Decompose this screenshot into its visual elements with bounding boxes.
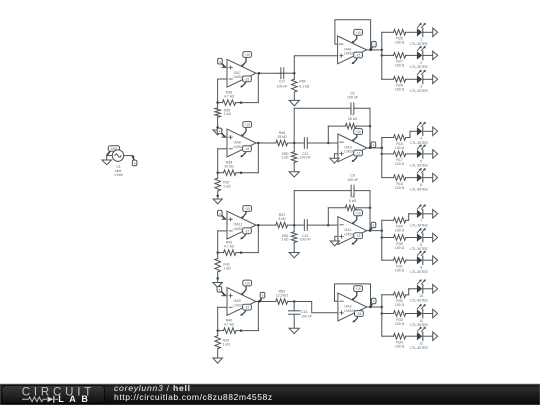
wire [423,130,433,132]
resistor R42 [218,241,259,256]
power flag +15 OA7 [241,52,252,67]
node a flag row1 [218,58,226,67]
wire [408,214,410,221]
svg-text:25 kΩ: 25 kΩ [348,117,358,121]
resistor R29 [382,218,409,233]
wire [218,78,227,80]
wire [423,288,433,290]
wire [256,72,280,74]
svg-text:1 kΩ: 1 kΩ [281,238,289,242]
svg-text:+15: +15 [244,123,250,127]
svg-text:1 kΩ: 1 kΩ [223,185,231,189]
svg-text:+15: +15 [355,211,361,215]
out flag 9 [433,256,438,265]
op-amp OA3 [338,134,367,162]
svg-text:1 kΩ: 1 kΩ [223,343,231,347]
svg-text:1 kΩ: 1 kΩ [281,155,289,159]
wire [423,153,433,155]
power flag +15 OA2 [352,286,363,300]
svg-text:100 Ω: 100 Ω [395,269,405,273]
node a flag row2 [217,128,226,138]
svg-text:100 Ω: 100 Ω [395,229,405,233]
wire [423,259,433,261]
junction [293,224,296,227]
ground [289,328,299,333]
svg-text:LTL-307EE: LTL-307EE [410,323,428,327]
wire [423,335,433,337]
junction [381,153,384,156]
wire [106,156,108,160]
junction [381,312,384,315]
out flag 11 [433,309,438,318]
svg-text:C16: C16 [301,310,307,314]
LED 5 LTL-307EE [410,144,428,167]
svg-text:-15: -15 [357,312,362,316]
resistor R31 [382,257,417,272]
svg-text:LTL-307EE: LTL-307EE [410,141,428,145]
resistor R7 feedback [328,113,370,129]
junction [216,126,219,128]
junction [369,147,372,150]
wire [257,73,259,102]
power flag +15 OA4 [352,29,363,43]
svg-text:5 kΩ: 5 kΩ [278,217,286,221]
wire [423,54,433,56]
svg-text:5 kΩ: 5 kΩ [349,199,357,203]
power flag -15 OA2 [352,311,363,323]
voltage source V1 sine source [112,150,124,177]
out flag 8 [433,233,438,242]
svg-text:100 Ω: 100 Ω [395,146,405,150]
svg-text:LM324: LM324 [344,309,355,313]
wire [222,66,227,68]
power flag +15 OA11 [241,206,252,219]
resistor R34 [382,333,417,348]
wire [369,108,371,126]
wire [327,126,329,143]
svg-text:-15: -15 [356,152,361,156]
node 1 flag [370,41,377,50]
svg-text:100 nF: 100 nF [277,85,288,89]
wire [217,79,219,103]
resistor R27 [382,53,417,68]
junction [216,195,219,198]
ground OA3 plus input [330,158,339,163]
wire [367,230,382,232]
wire [408,289,410,295]
wire [256,142,276,144]
svg-text:R54: R54 [299,79,305,83]
junction [381,306,384,309]
wire LED bus row1 [381,32,383,79]
out flag 12 [433,332,438,341]
resistor R39 [215,331,230,358]
wire [423,313,433,315]
svg-text:LTL-307EE: LTL-307EE [410,299,428,303]
junction [258,72,261,75]
junction [216,251,219,254]
junction [369,207,372,210]
resistor R47 [276,213,294,228]
wire LED bus row2 [381,138,383,178]
LED 3 LTL-307EE [410,70,428,93]
LED 12 LTL-307EE [410,327,428,350]
node 2 flag [369,142,376,149]
svg-text:12.5 kΩ: 12.5 kΩ [276,294,289,298]
LED 8 LTL-307EE [410,228,428,251]
power flag -15 OA1 [352,233,363,245]
wire [257,225,259,253]
wire [107,155,113,157]
wire [328,142,338,144]
svg-text:4.7 kΩ: 4.7 kΩ [224,95,235,99]
footer credit text [114,383,273,402]
svg-text:-15: -15 [356,234,361,238]
wire [218,148,227,150]
wire [369,126,371,148]
svg-text:LTL-307EE: LTL-307EE [410,224,428,228]
op-amp OA8 [227,129,256,157]
resistor R50 [281,143,297,172]
svg-text:4.7 kΩ: 4.7 kΩ [224,323,235,327]
resistor R46 [276,131,294,146]
wire [217,231,219,253]
wire [218,230,227,232]
svg-text:100 nF: 100 nF [347,96,358,100]
power flag +15 OA8 [241,122,252,137]
power flag +15 OA1 [352,210,363,224]
capacitor C6 feedback [294,174,370,196]
ground [289,172,299,177]
ground OA1 plus input [330,241,339,246]
svg-text:25 kΩ: 25 kΩ [277,135,287,139]
wire [328,224,338,226]
junction [240,251,243,254]
wire [423,213,433,215]
junction [327,224,330,227]
resistor R35 [215,103,231,130]
svg-text:100 Ω: 100 Ω [395,41,405,45]
wire [293,108,295,143]
resistor R54 [292,73,310,100]
svg-text:100 Ω: 100 Ω [395,246,405,250]
wire [293,191,295,226]
power flag -15 OA4 [352,52,363,64]
svg-text:-15: -15 [245,229,250,233]
resistor R32 [382,292,409,307]
wire [423,78,433,80]
wire [218,306,227,308]
wire [124,155,133,157]
junction [369,229,372,232]
ground [289,253,299,258]
junction [381,54,384,57]
svg-text:http://circuitlab.com/c8zu882m: http://circuitlab.com/c8zu882m4558z [114,392,273,402]
power flag +15 OA3 [352,129,363,142]
out flag 10 [433,285,438,294]
CircuitLab logo text [22,386,95,403]
junction [381,49,384,52]
svg-text:LTL-307EE: LTL-307EE [410,42,428,46]
logo resistor squiggle [23,397,58,402]
junction [240,329,243,332]
svg-text:LTL-307EE: LTL-307EE [410,89,428,93]
resistor R18 [382,175,417,190]
wire [222,295,227,297]
wire [410,130,417,132]
junction [293,300,296,303]
svg-text:+15: +15 [355,31,361,35]
power flag -15 OA3 [352,150,363,162]
svg-text:+15: +15 [355,287,361,291]
LED 1 LTL-307EE [410,23,428,46]
junction [293,72,296,75]
resistor R37 [215,173,231,199]
svg-text:100 Ω: 100 Ω [395,345,405,349]
wire [222,218,227,220]
wire [327,208,329,225]
out flag 1 [433,28,438,37]
wire [369,208,371,231]
junction [293,142,296,145]
junction [240,171,243,174]
node a flag row4 [217,287,226,297]
svg-text:100 Ω: 100 Ω [395,162,405,166]
node 3 flag [369,222,376,231]
resistor R17 [382,151,417,166]
node a flag row3 [218,210,226,219]
wire [256,224,276,226]
wire [257,302,259,331]
wire [335,154,338,159]
junction [240,101,243,104]
svg-text:-15: -15 [356,54,361,58]
resistor R36 [218,91,259,106]
svg-text:1 kΩ: 1 kΩ [224,112,232,116]
svg-text:100 nF: 100 nF [300,155,311,159]
svg-text:LTL-307EE: LTL-307EE [410,164,428,168]
op-amp OA4 [338,36,367,64]
power flag -15 OA9 [240,304,251,316]
wire [371,49,382,51]
junction [369,306,372,309]
svg-text:LTL-307EE: LTL-307EE [410,346,428,350]
junction [216,101,219,104]
resistor R28 [382,77,417,92]
svg-text:C17: C17 [279,80,285,84]
power flag -15 OA8 [240,146,251,158]
svg-text:+15: +15 [244,282,250,286]
svg-text:1 kΩ: 1 kΩ [223,267,231,271]
svg-text:LTL-307EE: LTL-307EE [410,65,428,69]
out flag 7 [433,210,438,219]
out flag 4 [433,127,438,136]
wire LED bus row3 [381,220,383,260]
node b flag [259,292,265,302]
ground [213,199,222,204]
svg-text:100 Ω: 100 Ω [395,303,405,307]
wire [367,147,382,149]
resistor R8 feedback [328,195,370,211]
capacitor C16 shunt [288,302,312,329]
resistor R30 [382,235,417,250]
ground [213,130,222,135]
ground [213,283,222,288]
svg-text:-15: -15 [245,306,250,310]
LED 7 LTL-307EE [410,204,428,227]
junction [258,300,261,303]
power flag -15 OA11 [240,228,251,240]
capacitor C17 [277,68,288,89]
LED 6 LTL-307EE [410,168,428,191]
svg-text:100 nF: 100 nF [301,315,312,319]
resistor R16 [382,135,410,150]
wire [369,191,371,208]
wire [294,302,338,313]
wire [294,56,337,73]
wire [423,177,433,179]
svg-text:-15: -15 [245,77,250,81]
wire [217,307,219,330]
wire [256,301,276,303]
junction [216,277,219,280]
wire [409,131,411,137]
junction [369,49,372,52]
junction [369,125,372,128]
resistor R51 [281,225,297,252]
wire [257,143,259,173]
wire [371,306,382,308]
LED 9 LTL-307EE [410,251,428,274]
footer bar [0,384,540,405]
out flag 5 [433,150,438,159]
out flag 2 [433,51,438,60]
svg-text:6.1 kΩ: 6.1 kΩ [299,85,310,89]
out flag 3 [433,75,438,84]
svg-text:100 nF: 100 nF [300,238,311,242]
svg-text:LTL-307EE: LTL-307EE [410,270,428,274]
svg-text:LTL-307EE: LTL-307EE [410,187,428,191]
resistor R41 [215,253,231,283]
svg-text:30 kΩ: 30 kΩ [224,165,234,169]
voltage source V1 SND flag [107,146,119,155]
wire feedback OA2 [335,284,371,307]
junction [381,147,384,150]
junction [381,236,384,239]
svg-text:1 kHz: 1 kHz [114,173,123,177]
capacitor C12 [294,220,328,242]
LED 11 LTL-307EE [410,304,428,327]
ground [102,160,112,165]
svg-text:LTL-307EE: LTL-307EE [410,247,428,251]
junction [257,142,260,145]
op-amp OA9 [227,288,256,316]
junction [257,224,260,227]
resistor R53 [276,290,294,305]
svg-text:+15: +15 [244,53,250,57]
capacitor C5 feedback [294,92,370,114]
svg-text:4.7 kΩ: 4.7 kΩ [224,245,235,249]
ground row4 input [213,283,222,288]
wire [222,136,227,138]
junction [327,142,330,145]
node a flag at source [132,155,137,165]
svg-text:100 Ω: 100 Ω [395,186,405,190]
svg-text:+15: +15 [355,130,361,134]
svg-text:100 nF: 100 nF [347,178,358,182]
wire [423,31,433,33]
power flag +15 OA9 [241,280,252,295]
LED 10 LTL-307EE [410,279,428,302]
wire LED bus row4 [381,295,383,336]
resistor R40 [218,319,259,334]
op-amp OA7 [227,59,256,87]
ground [213,358,223,363]
wire [423,237,433,239]
power flag -15 OA7 [240,76,251,88]
node 4 flag [370,298,377,308]
op-amp OA1 [338,217,367,245]
wire [217,149,219,173]
wire feedback OA4 [335,20,371,50]
svg-text:100 Ω: 100 Ω [395,64,405,68]
resistor R38 [218,161,259,176]
resistor R26 [382,30,417,45]
op-amp OA11 [227,211,256,239]
junction [381,229,384,232]
LED 2 LTL-307EE [410,46,428,69]
capacitor C11 [294,138,328,160]
ground [289,100,299,106]
svg-text:LAB: LAB [58,394,93,404]
svg-text:100 Ω: 100 Ω [395,88,405,92]
LED 4 LTL-307EE [410,122,428,145]
out flag 6 [433,173,438,182]
op-amp OA2 [338,293,367,321]
wire [335,236,338,241]
junction [216,329,219,332]
wire [284,72,295,74]
svg-text:100 Ω: 100 Ω [395,322,405,326]
logo diode [48,397,54,403]
resistor R33 [382,311,417,326]
svg-text:-15: -15 [245,147,250,151]
svg-text:+15: +15 [244,207,250,211]
junction [216,171,219,174]
wire [409,288,417,290]
wire [409,213,417,215]
